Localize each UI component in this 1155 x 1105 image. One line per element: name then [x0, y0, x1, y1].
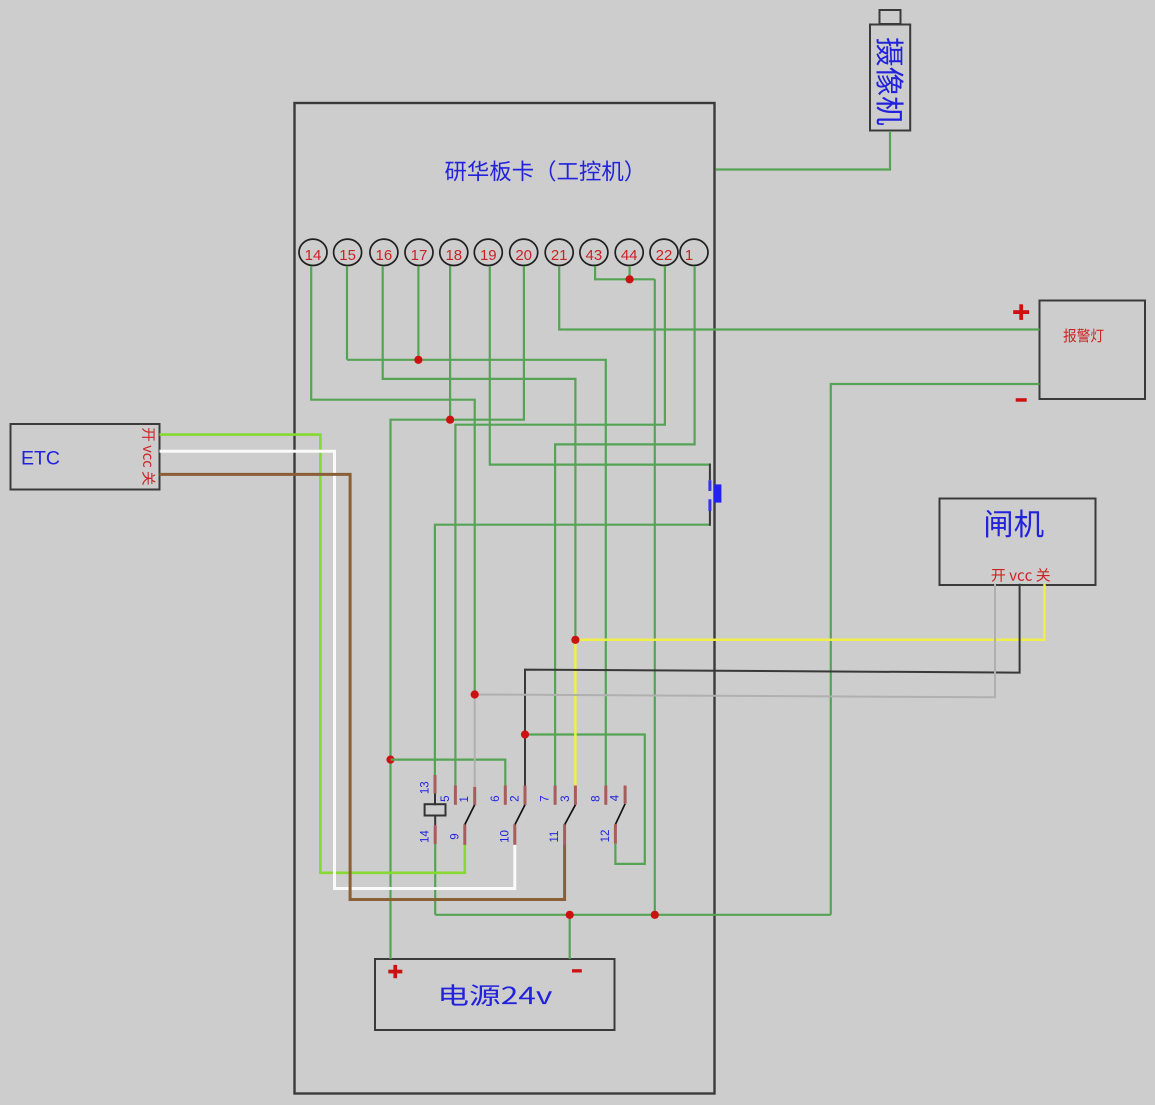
svg-text:1: 1 [459, 796, 471, 802]
relay pin 5 stub [454, 786, 457, 805]
power minus terminal label [572, 969, 582, 972]
terminal circle pin 15 [334, 239, 362, 265]
junction yellow gate close [571, 636, 579, 644]
gate pin labels 开 vcc 关 [992, 568, 1051, 582]
main board box 研华板卡 [295, 103, 715, 1094]
wire pin15 down [346, 266, 348, 360]
svg-text:17: 17 [411, 247, 428, 264]
terminal circle pin 18 [440, 239, 468, 265]
connector pin lower blue [708, 499, 711, 511]
svg-text:10: 10 [499, 830, 511, 843]
svg-text:14: 14 [420, 830, 432, 843]
connector pin upper blue [708, 480, 711, 491]
svg-text:22: 22 [656, 247, 673, 264]
board title 研华板卡（工控机） [445, 160, 630, 181]
svg-text:43: 43 [586, 247, 603, 264]
svg-text:13: 13 [420, 781, 432, 794]
wire branch to relay pin6 [391, 760, 506, 786]
wire pin43 join pin44 [595, 266, 655, 279]
relay pin 14 stub [434, 825, 437, 844]
gray wire gate open to relay pin1 [475, 584, 995, 786]
wire pin16 to yellow junction [383, 266, 576, 640]
svg-text:18: 18 [445, 247, 462, 264]
svg-text:4: 4 [610, 794, 622, 801]
svg-text:6: 6 [490, 795, 502, 801]
wire pin1 to relay pin7 [555, 266, 695, 786]
power supply box 电源24v [375, 959, 615, 1030]
svg-text:20: 20 [515, 247, 532, 264]
relay pin 3 stub [574, 786, 577, 805]
wire relay pin14 to ground rail [434, 844, 436, 915]
gate label 闸机 [986, 509, 1044, 537]
camera label 摄像机 [876, 38, 903, 125]
power plus terminal label [388, 965, 402, 978]
brown wire ETC close to relay pin11 [160, 474, 565, 899]
ETC box [11, 424, 160, 490]
relay pin 2 stub [524, 786, 527, 805]
junction gray gate open [471, 690, 479, 698]
wire camera to board [716, 131, 890, 170]
alarm label 报警灯 [1063, 329, 1103, 343]
svg-text:8: 8 [590, 795, 602, 801]
terminal circle pin 14 [299, 239, 327, 265]
wire connector to relay coil pin13 [435, 525, 710, 776]
junction pin20 branch to relay pin6 [386, 756, 394, 764]
camera body box [870, 25, 910, 131]
relay pin13 link to coil [434, 794, 436, 806]
relay pin 13 stub [434, 775, 437, 794]
svg-text:14: 14 [305, 247, 322, 264]
ground rail horizontal [435, 914, 831, 916]
junction pin44 on pin43 wire [626, 275, 634, 283]
alarm light box 报警灯 [1040, 301, 1146, 400]
svg-text:11: 11 [549, 831, 561, 843]
wire pin15/17 to relay pin8 [347, 360, 606, 786]
svg-text:21: 21 [551, 247, 568, 264]
relay pin 6 stub [504, 786, 507, 805]
wire pin21 to alarm plus [559, 266, 1039, 330]
terminal circle pin 22 [650, 239, 678, 265]
svg-text:2: 2 [510, 795, 522, 801]
junction pin17 on pin15 wire [414, 356, 422, 364]
svg-text:19: 19 [480, 247, 497, 264]
relay contact 1-9 [465, 805, 475, 825]
connector plug blue [714, 484, 722, 502]
terminal circle pin 20 [510, 239, 538, 265]
terminal circle pin 43 [580, 239, 608, 265]
svg-text:9: 9 [449, 833, 461, 839]
svg-text:7: 7 [540, 795, 552, 801]
connector bracket lower black [709, 511, 711, 526]
relay contact 4-12 [616, 804, 626, 824]
junction power minus [566, 911, 574, 919]
relay pin 10 stub [513, 824, 516, 845]
wire pin14 down [311, 266, 475, 695]
svg-text:5: 5 [440, 795, 452, 801]
terminal circle pin 21 [545, 239, 573, 265]
ground rail up to alarm minus [831, 384, 1040, 915]
relay contact 3-11 [565, 805, 576, 825]
wire ground to power minus [569, 915, 571, 959]
svg-text:3: 3 [560, 795, 572, 801]
terminal circle pin 17 [405, 239, 433, 265]
relay pin 7 stub [554, 786, 557, 805]
terminal circle pin 16 [370, 239, 398, 265]
power label 电源24v [441, 984, 552, 1006]
alarm minus label [1016, 398, 1027, 402]
svg-text:1: 1 [685, 247, 693, 264]
relay coil to pin14 [434, 816, 436, 826]
junction 43/44 rail [651, 911, 659, 919]
terminal circle pin 1 [680, 239, 708, 265]
wire pin19 to connector [490, 266, 710, 465]
wire black junction to relay pin12 [525, 735, 645, 864]
svg-text:12: 12 [600, 830, 612, 843]
junction black gate vcc [521, 730, 529, 738]
terminal circle pin 19 [474, 239, 502, 265]
relay pin 12 stub [614, 824, 617, 844]
gate box 闸机 [940, 499, 1096, 586]
wire pin17 down [417, 266, 419, 360]
relay pin 9 stub [463, 824, 466, 845]
relay pin 8 stub [604, 786, 607, 805]
wire pin18 down [449, 266, 451, 420]
relay pin 1 stub [473, 787, 476, 805]
svg-text:44: 44 [621, 247, 638, 264]
wire pin44 down [628, 266, 630, 279]
svg-text:ETC: ETC [21, 448, 60, 470]
yellow wire junction to relay pin3 [574, 640, 577, 786]
relay pin 11 stub [563, 824, 566, 845]
yellow wire gate close to relay pin3 [575, 584, 1044, 640]
relay contact 2-10 [515, 805, 525, 825]
svg-text:15: 15 [339, 247, 356, 264]
relay pin 4 stub [624, 786, 627, 804]
wire pin20 to power plus [391, 266, 524, 959]
camera lens box [880, 10, 901, 24]
ETC pin labels 开 vcc 关 [142, 428, 155, 485]
white wire ETC vcc to relay pin10 [160, 451, 515, 888]
wire pin22 to relay pin5 [455, 266, 665, 786]
wire 43/44 to ground rail [654, 279, 656, 915]
black wire gate vcc to relay pin2 [525, 584, 1020, 786]
junction pin18 on pin20 wire [446, 416, 454, 424]
svg-text:16: 16 [376, 247, 393, 264]
lightgreen wire ETC open to relay pin9 [160, 435, 465, 873]
terminal circle pin 44 [615, 239, 643, 265]
alarm plus label [1013, 304, 1029, 320]
connector bracket upper black [709, 464, 711, 481]
relay coil [425, 804, 446, 815]
